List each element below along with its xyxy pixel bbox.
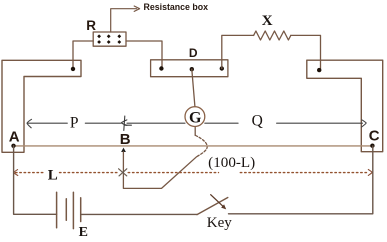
node: terminal dot on left strip: [71, 67, 75, 71]
jockey flexible wire (dashed curve across bridge wire): [195, 135, 207, 157]
node: D centre terminal: [190, 67, 194, 71]
crossed arrowheads at B on dotted line: [119, 169, 127, 176]
copper strip left (L-shape) at A: [2, 60, 81, 152]
node C dot: [370, 144, 374, 148]
wire: D right terminal up to resistor X left lead: [222, 35, 254, 68]
plug dots of resistance box: [97, 34, 121, 44]
svg-text:X: X: [262, 13, 273, 29]
svg-text:B: B: [120, 131, 131, 148]
svg-text:(100-L): (100-L): [208, 155, 255, 171]
wire: D centre terminal down to galvanometer: [192, 69, 195, 106]
dotted dimension right arrow at C: [368, 170, 372, 176]
dotted line segment L to cross: [60, 172, 119, 174]
dimension line Q (left part, hidden behind galvanometer): [127, 122, 185, 124]
resistance box R (rectangle with six plug dots): [93, 32, 126, 46]
jockey contact arrow at B: [121, 148, 126, 152]
svg-text:Resistance box: Resistance box: [144, 2, 209, 12]
wire: resistance box R right lead down to D box left terminal: [126, 41, 162, 69]
dimension line P (left arrow and line): [27, 119, 32, 128]
svg-text:R: R: [86, 18, 96, 33]
svg-text:P: P: [70, 115, 79, 132]
wire: A down to battery: [14, 146, 57, 215]
node: D right terminal: [220, 66, 224, 70]
node: D left terminal: [159, 66, 163, 70]
dimension break mark at B: [121, 116, 131, 130]
svg-text:D: D: [189, 46, 198, 60]
main bridge wire A to C: [14, 145, 373, 147]
svg-text:Q: Q: [252, 113, 263, 130]
callout arrow to Resistance box: [111, 9, 137, 32]
svg-text:C: C: [369, 128, 380, 145]
resistor X (zigzag): [254, 31, 291, 40]
jockey wire: vertical at B, bottom run, diagonal up to G: [123, 152, 196, 189]
wire: resistor X right lead down to right strip terminal: [291, 35, 321, 70]
svg-text:A: A: [9, 128, 20, 145]
galvanometer G circle: [185, 107, 205, 127]
battery E (two cells): [57, 192, 81, 228]
svg-text:L: L: [48, 168, 58, 184]
dimension line P (right part): [85, 122, 121, 124]
wire: battery to key: [81, 213, 197, 215]
node: terminal dot on right strip: [317, 68, 321, 72]
connector block D (rectangle with three terminals): [151, 60, 228, 77]
node A dot: [11, 144, 15, 148]
svg-text:E: E: [79, 225, 88, 240]
wire: key to C (bottom right): [229, 146, 373, 214]
dotted line L segment: [16, 172, 46, 174]
dotted dimension line L (left arrow): [14, 170, 18, 176]
key press arrow: [211, 195, 225, 209]
svg-text:G: G: [189, 109, 202, 126]
copper strip right (L-shape) at C: [307, 60, 383, 152]
wire: galvanometer bottom stub: [194, 127, 196, 135]
wire: left strip terminal up to resistance box R left lead: [73, 41, 93, 69]
key K (open switch lever): [197, 198, 228, 215]
dotted line segment after label: [240, 172, 368, 174]
dotted line segment to (100-L): [128, 172, 218, 174]
svg-text:Key: Key: [207, 215, 232, 231]
dimension line Q (right part with arrow): [277, 122, 363, 124]
